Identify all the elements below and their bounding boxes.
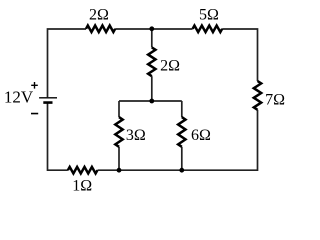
- svg-text:5Ω: 5Ω: [199, 7, 219, 24]
- svg-text:2Ω: 2Ω: [160, 57, 180, 74]
- battery V1 negative plate (short thick): [43, 101, 52, 104]
- resistor 6ohm vertical: [178, 117, 185, 147]
- svg-text:1Ω: 1Ω: [72, 178, 92, 195]
- resistor 1ohm bottom horizontal: [68, 167, 98, 174]
- wire top-middle segment (2ohm resistor to node A to 5ohm resistor): [115, 28, 192, 30]
- svg-text:6Ω: 6Ω: [191, 127, 211, 144]
- resistor 5ohm top horizontal: [193, 26, 223, 33]
- wire 6ohm branch bottom stub: [181, 147, 183, 170]
- wire right-bottom segment (7ohm down to bottom-right corner, left to node C): [182, 110, 258, 170]
- svg-text:7Ω: 7Ω: [265, 91, 285, 108]
- resistor 2ohm middle vertical: [148, 47, 155, 76]
- wire top-left segment (battery + up and right to 2ohm resistor): [48, 29, 87, 97]
- wire bottom-middle segment (node C to node B): [119, 169, 182, 171]
- svg-text:3Ω: 3Ω: [126, 127, 146, 144]
- wire bottom-left segment (node B to 1ohm resistor): [97, 169, 119, 171]
- node D junction dot (middle rail): [149, 99, 154, 104]
- resistor 3ohm vertical: [115, 117, 122, 147]
- wire top-right segment (5ohm resistor to top-right corner down to 7ohm): [222, 29, 257, 81]
- label - (battery negative sign): [31, 113, 38, 115]
- node C junction dot (bottom, 6ohm): [179, 168, 184, 173]
- wire bottom-battery segment (1ohm resistor left and up to battery -): [48, 103, 68, 170]
- battery V1 positive plate (long thin): [39, 97, 57, 99]
- wire middle vertical bottom (2ohm vertical resistor to node D): [151, 76, 153, 101]
- svg-text:12V: 12V: [4, 87, 34, 106]
- node B junction dot (bottom, 3ohm): [117, 168, 122, 173]
- label + (battery positive sign): [31, 82, 38, 89]
- node A junction dot (top middle): [149, 26, 154, 31]
- wire 3ohm branch top stub: [118, 101, 120, 117]
- resistor 2ohm top horizontal: [86, 26, 115, 33]
- wire 3ohm branch bottom stub: [118, 147, 120, 170]
- wire middle horizontal rail (3ohm/6ohm branch top rail): [119, 100, 182, 102]
- resistor 7ohm right vertical: [254, 81, 261, 110]
- svg-text:2Ω: 2Ω: [89, 6, 109, 23]
- wire 6ohm branch top stub: [181, 101, 183, 117]
- wire middle vertical top (node A down to 2ohm vertical resistor): [151, 29, 153, 47]
